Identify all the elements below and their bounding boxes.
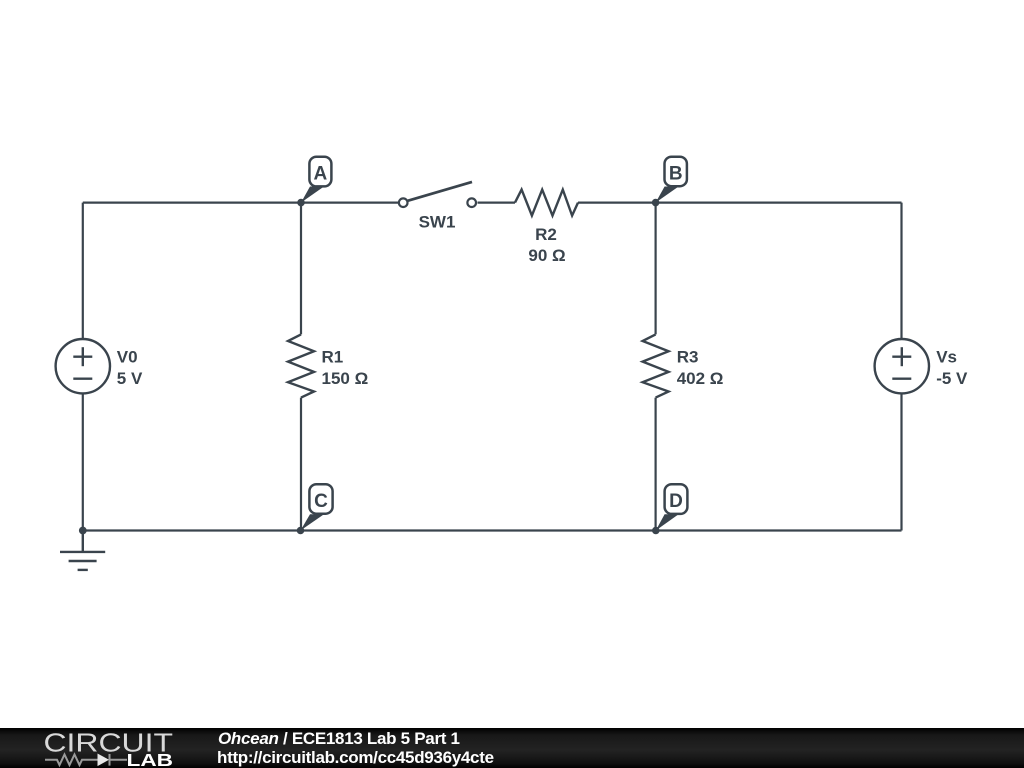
label Vs -5 V bbox=[936, 348, 968, 389]
wire: R2 to node B bbox=[578, 202, 656, 204]
svg-text:SW1: SW1 bbox=[419, 212, 456, 231]
svg-text:-5 V: -5 V bbox=[936, 369, 968, 388]
svg-text:Vs: Vs bbox=[936, 348, 957, 367]
switch SW1 bbox=[399, 182, 476, 207]
svg-text:R1: R1 bbox=[322, 348, 344, 367]
svg-text:D: D bbox=[669, 491, 683, 512]
svg-text:402 Ω: 402 Ω bbox=[677, 369, 724, 388]
svg-text:V0: V0 bbox=[117, 348, 138, 367]
label R2 90 ohm bbox=[528, 225, 565, 265]
wire: node A to switch left terminal bbox=[301, 202, 398, 204]
wire: node A down to R1 bbox=[300, 203, 302, 335]
wire: switch right terminal to R2 bbox=[478, 202, 516, 204]
node B bbox=[652, 157, 687, 207]
svg-text:90 Ω: 90 Ω bbox=[528, 246, 565, 265]
label R1 150 ohm bbox=[322, 348, 369, 389]
wire: left vertical upper bbox=[82, 203, 84, 339]
wire: right vertical lower bbox=[900, 394, 902, 531]
CircuitLab logo bbox=[0, 728, 190, 768]
wire: node C to ground junction bbox=[83, 529, 301, 531]
svg-text:R3: R3 bbox=[677, 348, 699, 367]
node C bbox=[297, 484, 333, 534]
footer title text bbox=[218, 729, 460, 749]
wire: node B to top-right corner bbox=[656, 202, 902, 204]
wire: right vertical upper bbox=[900, 203, 902, 339]
svg-text:150 Ω: 150 Ω bbox=[322, 369, 369, 388]
resistor R2 bbox=[515, 190, 578, 216]
wire: bottom right corner to node D bbox=[656, 529, 902, 531]
svg-text:B: B bbox=[669, 163, 683, 184]
label V0 5 V bbox=[117, 348, 143, 389]
wire top-left: left corner to node A bbox=[83, 202, 301, 204]
wire: node D to node C bbox=[301, 529, 656, 531]
voltage source V0 bbox=[56, 339, 110, 393]
wire: node B down to R3 bbox=[654, 203, 656, 335]
resistor R3 bbox=[643, 334, 669, 397]
wire: left vertical lower bbox=[82, 394, 84, 531]
footer url text bbox=[217, 748, 494, 768]
ground bbox=[60, 531, 105, 570]
label R3 402 ohm bbox=[677, 348, 724, 389]
svg-text:R2: R2 bbox=[535, 225, 557, 244]
wire: R1 down to node C bbox=[300, 398, 302, 531]
node A bbox=[297, 157, 331, 207]
resistor R1 bbox=[288, 334, 314, 397]
svg-text:LAB: LAB bbox=[127, 750, 174, 768]
svg-text:5 V: 5 V bbox=[117, 369, 143, 388]
voltage source Vs bbox=[875, 339, 929, 393]
svg-text:A: A bbox=[314, 163, 328, 184]
footer bar bbox=[0, 728, 1024, 768]
junction dot at ground corner bbox=[79, 527, 87, 535]
wire: R3 down to node D bbox=[654, 398, 656, 531]
node D bbox=[652, 484, 687, 534]
svg-text:C: C bbox=[314, 491, 328, 512]
